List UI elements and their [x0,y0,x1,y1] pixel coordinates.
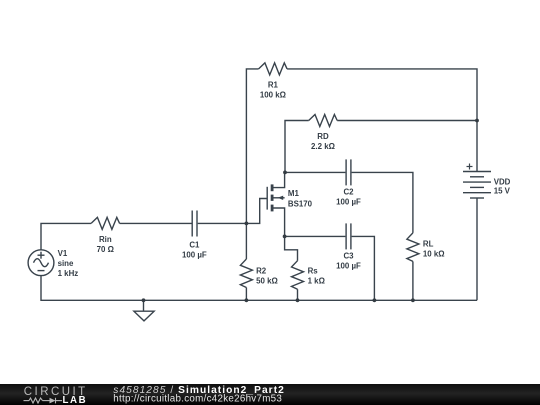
capacitor C3 [346,223,351,249]
wire [120,222,192,224]
wire [352,172,413,233]
battery VDD [463,164,491,199]
resistor R1 [259,63,288,75]
wire [297,289,299,300]
wire [246,199,267,224]
wire [285,235,346,237]
label Rin [97,235,114,254]
node junction [373,298,377,302]
resistor RD [309,115,338,127]
resistor Rin [91,217,120,229]
capacitor C2 [346,159,351,185]
wire [412,261,414,300]
wire [41,276,477,301]
capacitor C1 [192,211,197,237]
wire [285,121,309,173]
node junction [283,171,287,175]
svg-text:LAB: LAB [63,395,88,405]
label VDD [494,177,511,195]
wire [245,223,247,259]
svg-text:http://circuitlab.com/c42ke26h: http://circuitlab.com/c42ke26hv7m53 [113,394,282,405]
logo squiggle resistor+diode [24,398,63,404]
wire [198,222,247,224]
label RD [311,132,335,151]
label Rs [308,267,325,286]
resistor RL [407,233,419,262]
node junction [245,222,249,226]
label R2 [256,267,278,286]
wire [41,223,91,249]
wire [476,198,478,300]
wire [245,288,247,301]
ground [134,300,154,321]
resistor R2 [240,259,252,288]
resistor Rs [292,261,304,290]
node junction [142,298,146,302]
label C3 [336,251,361,270]
wire [337,120,477,122]
watermark bar [0,384,540,405]
node junction [283,235,287,239]
node junction [411,298,415,302]
voltage source V1 [28,250,54,276]
node junction [296,298,300,302]
label C2 [336,187,361,206]
label R1 [260,81,286,100]
wire [285,171,345,173]
wire [352,236,375,300]
node junction [245,298,249,302]
node junction [475,119,479,123]
label RL [423,239,445,258]
wire [287,69,477,172]
wire [285,236,298,260]
wire [246,69,258,224]
transistor M1 [267,172,284,236]
label M1 [288,189,313,208]
label C1 [182,240,207,259]
label V1 [58,249,79,278]
